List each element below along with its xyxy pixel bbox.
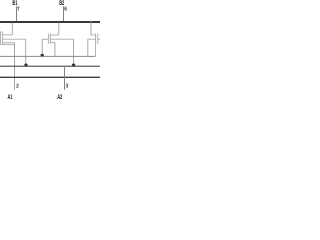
svg-text:6: 6 [64, 7, 67, 13]
wire A2 stub [64, 66, 66, 90]
wire B2 stub [63, 6, 65, 22]
junction dot Q1 bulk / rail A [24, 63, 27, 66]
wire B1 stub [16, 6, 18, 23]
transistor Q1 [1, 31, 26, 44]
wire Q2 bulk down [73, 39, 75, 65]
wire Q3 bulk down [87, 39, 89, 56]
transistor Q3 [88, 33, 100, 56]
wire rail bottom [0, 76, 100, 78]
svg-text:7: 7 [17, 7, 20, 13]
wire Q1 drain to rail [11, 23, 13, 35]
junction dot Q2 bulk / rail A [72, 63, 75, 66]
junction dot Q2 gate / mid rail [41, 54, 44, 57]
wire Q2 gate down [41, 39, 43, 56]
wire Q2 source down [54, 43, 56, 57]
wire rail A lower [0, 65, 100, 67]
wire mid rail [0, 55, 95, 57]
wire top rail 1 [0, 21, 100, 23]
wire A1 vertical [14, 43, 16, 90]
svg-text:2: 2 [16, 84, 19, 90]
svg-text:A1: A1 [8, 94, 13, 100]
wire Q2 drain to rail [58, 23, 60, 36]
svg-text:3: 3 [66, 84, 69, 90]
wire top rail 2 [0, 22, 100, 24]
wire Q3 drain to rail [90, 22, 92, 36]
svg-text:A2: A2 [57, 94, 62, 100]
wire Q1 bulk down [25, 39, 27, 65]
transistor Q2 [42, 34, 73, 44]
